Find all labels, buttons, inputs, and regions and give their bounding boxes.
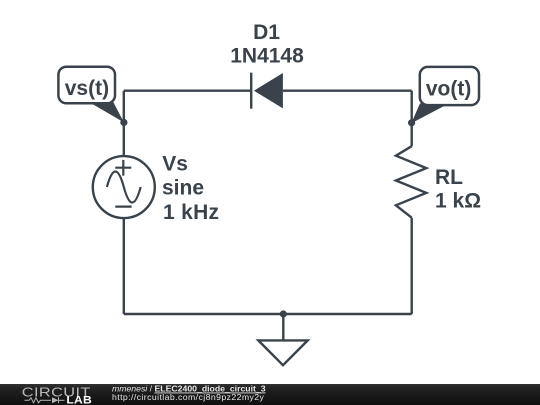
svg-text:LAB: LAB xyxy=(66,395,92,405)
svg-text:1 kHz: 1 kHz xyxy=(163,201,219,224)
svg-text:Vs: Vs xyxy=(162,153,188,176)
svg-text:RL: RL xyxy=(435,166,463,189)
svg-text:1N4148: 1N4148 xyxy=(230,45,304,68)
svg-text:sine: sine xyxy=(162,177,204,200)
svg-text:http://circuitlab.com/cj8n9pz2: http://circuitlab.com/cj8n9pz22my2y xyxy=(112,392,265,402)
svg-text:1 kΩ: 1 kΩ xyxy=(435,190,481,213)
svg-text:D1: D1 xyxy=(253,21,280,44)
svg-text:vo(t): vo(t) xyxy=(426,78,472,101)
svg-text:vs(t): vs(t) xyxy=(65,77,109,100)
